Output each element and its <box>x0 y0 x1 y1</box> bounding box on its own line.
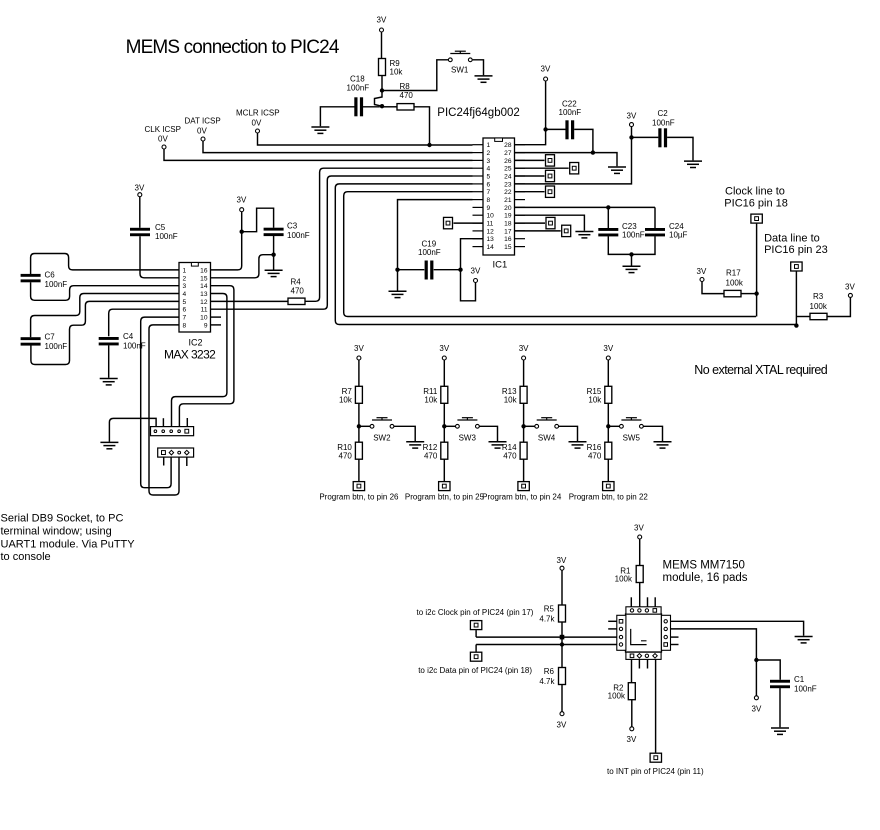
node R9-SW1 <box>380 88 384 92</box>
ground <box>100 379 118 385</box>
svg-text:C18: C18 <box>350 75 365 84</box>
node data/R6 <box>560 642 564 646</box>
svg-text:R14: R14 <box>502 443 517 452</box>
bottom pad row <box>626 652 661 659</box>
ground <box>654 442 672 448</box>
wire <box>241 212 243 232</box>
wire zigzag to C3 top <box>242 208 274 232</box>
svg-text:SW5: SW5 <box>623 434 641 443</box>
svg-text:10k: 10k <box>424 396 438 405</box>
wire <box>362 106 380 108</box>
wire C6 bottom to MAX pin3 <box>31 282 179 300</box>
ground <box>311 127 329 133</box>
wire <box>381 32 383 59</box>
wire pin7 to clock line <box>344 192 756 317</box>
capacitor C24 <box>645 228 665 236</box>
terminal pin25 btn <box>439 482 450 491</box>
svg-text:0V: 0V <box>252 119 262 128</box>
svg-text:R6: R6 <box>544 667 555 676</box>
svg-text:MCLR ICSP: MCLR ICSP <box>236 109 280 118</box>
svg-text:PIC16 pin 18: PIC16 pin 18 <box>724 197 788 209</box>
svg-text:26: 26 <box>504 158 512 165</box>
svg-text:2: 2 <box>183 275 187 282</box>
ground <box>608 167 626 173</box>
wire MAX pin8 to DB9 socket <box>149 325 179 495</box>
resistor R15 <box>605 386 612 403</box>
svg-text:5: 5 <box>487 174 491 181</box>
svg-text:Serial DB9 Socket, to PC: Serial DB9 Socket, to PC <box>1 513 124 525</box>
svg-text:3V: 3V <box>627 111 637 120</box>
svg-text:3V: 3V <box>845 282 855 291</box>
svg-text:Program btn, to pin 25: Program btn, to pin 25 <box>405 492 485 501</box>
node C2 <box>629 135 633 139</box>
svg-text:100nF: 100nF <box>652 118 675 127</box>
svg-text:100k: 100k <box>810 302 828 311</box>
MEMS MM7150 module body <box>626 614 662 652</box>
wire <box>139 197 141 228</box>
resistor R5 <box>559 605 566 622</box>
node C19/pin13 <box>458 268 462 272</box>
svg-text:10µF: 10µF <box>669 231 688 240</box>
capacitor C18 <box>354 97 363 116</box>
terminal pin22 <box>515 191 545 193</box>
svg-text:C5: C5 <box>155 223 166 232</box>
node C1/3V <box>754 658 758 662</box>
wire MAX pin12 to R4 <box>211 300 289 302</box>
svg-text:100nF: 100nF <box>418 248 441 257</box>
wire C4 to ground <box>108 345 110 378</box>
wire MAX pin5 to C7 bottom <box>31 301 179 364</box>
svg-text:20: 20 <box>504 205 512 212</box>
svg-text:CLK ICSP: CLK ICSP <box>145 125 181 134</box>
wire R17 to node <box>741 293 757 295</box>
svg-text:to console: to console <box>1 551 51 563</box>
wire pin15 to C3 node <box>211 255 274 278</box>
ground <box>489 442 507 448</box>
i2c clock line <box>476 636 617 638</box>
terminal pin17 <box>515 230 561 232</box>
terminal i2c data <box>470 652 481 661</box>
svg-text:8: 8 <box>487 197 491 204</box>
wire pin6 to data line <box>335 184 795 325</box>
wire MAX pin14 to DB9 connector <box>179 286 234 427</box>
terminal pin24 btn <box>518 482 529 491</box>
svg-text:No external XTAL required: No external XTAL required <box>694 363 827 377</box>
svg-text:100nF: 100nF <box>45 342 68 351</box>
header stubs <box>162 418 164 426</box>
wire C6 top to MAX pin1 <box>31 254 179 275</box>
capacitor C22 <box>546 128 566 130</box>
svg-text:Clock line to: Clock line to <box>725 186 785 198</box>
svg-text:3V: 3V <box>354 344 364 353</box>
resistor R16 <box>605 442 612 459</box>
switch SW1 <box>448 51 472 62</box>
wire header pin1 to ground <box>109 418 156 441</box>
button circuit SW4 <box>482 344 586 501</box>
node data line <box>794 323 798 327</box>
svg-text:R11: R11 <box>423 387 438 396</box>
pin stubs right 10 9 <box>211 316 222 318</box>
switch SW4 <box>535 418 559 429</box>
wire pin16 to 3V node <box>211 232 242 270</box>
IC IC2 MAX 3232 body <box>179 263 211 333</box>
svg-text:470: 470 <box>291 287 305 296</box>
svg-text:1: 1 <box>487 142 491 149</box>
wire <box>382 106 397 108</box>
terminal data line <box>791 262 802 271</box>
node C18-R8 <box>380 104 384 108</box>
resistor R13 <box>520 386 527 403</box>
svg-text:3: 3 <box>487 158 491 165</box>
ground <box>100 442 118 448</box>
resistor R8 <box>397 104 414 110</box>
capacitor C2 <box>632 136 659 138</box>
wire module to R2 <box>631 659 633 683</box>
svg-text:10k: 10k <box>339 396 353 405</box>
svg-text:terminal window; using: terminal window; using <box>1 526 112 538</box>
svg-text:SW2: SW2 <box>373 434 391 443</box>
svg-text:C1: C1 <box>794 675 805 684</box>
svg-text:3V: 3V <box>237 196 247 205</box>
svg-text:4.7k: 4.7k <box>539 615 555 624</box>
pin numbers <box>183 267 187 329</box>
wire <box>434 269 461 271</box>
svg-text:3V: 3V <box>377 16 387 25</box>
svg-text:28: 28 <box>504 142 512 149</box>
svg-text:PIC24fj64gb002: PIC24fj64gb002 <box>437 107 519 119</box>
svg-text:8: 8 <box>183 322 187 329</box>
svg-text:470: 470 <box>503 452 517 461</box>
svg-text:4.7k: 4.7k <box>539 677 555 686</box>
wire pin23 to 3V <box>515 127 632 184</box>
wire R3 tap <box>796 316 810 318</box>
svg-text:19: 19 <box>504 213 512 220</box>
wire MAX pin4 to C7 top <box>31 294 179 338</box>
wire C19 to pin13 <box>461 239 484 270</box>
right pad column <box>661 615 670 650</box>
svg-text:MAX 3232: MAX 3232 <box>164 348 216 362</box>
svg-text:3V: 3V <box>697 267 707 276</box>
svg-text:10k: 10k <box>504 396 518 405</box>
ground <box>795 637 813 643</box>
resistor R9 <box>379 59 386 76</box>
terminal pin26 btn <box>353 482 364 491</box>
terminal i2c clock <box>470 621 481 630</box>
pin stubs left <box>473 145 484 247</box>
ground <box>475 76 493 82</box>
terminal pin11 <box>444 217 453 228</box>
ground <box>265 270 283 276</box>
terminal pin22 btn <box>603 482 614 491</box>
wire <box>382 60 448 91</box>
svg-text:3V: 3V <box>135 184 145 193</box>
capacitor C3 <box>264 228 284 236</box>
wire pin20 to C23 C24 <box>515 206 656 208</box>
svg-text:R5: R5 <box>544 605 555 614</box>
svg-text:3V: 3V <box>439 344 449 353</box>
button circuit SW3 <box>405 344 507 501</box>
svg-text:3: 3 <box>183 283 187 290</box>
node 3V/C22 <box>543 127 547 131</box>
wire R5 R6 vertical <box>561 622 563 668</box>
capacitor C7 <box>21 337 41 345</box>
top pad row <box>626 607 661 614</box>
wire <box>381 76 383 91</box>
svg-text:module, 16 pads: module, 16 pads <box>663 572 748 584</box>
capacitor C4 <box>99 337 119 345</box>
svg-text:R7: R7 <box>342 387 353 396</box>
svg-text:0V: 0V <box>197 127 207 136</box>
svg-text:4: 4 <box>487 166 491 173</box>
wire C18 left to ground <box>320 107 355 127</box>
svg-text:SW1: SW1 <box>451 66 469 75</box>
node <box>357 424 361 428</box>
svg-text:22: 22 <box>504 189 512 196</box>
svg-text:100k: 100k <box>615 575 633 584</box>
svg-text:3V: 3V <box>557 556 567 565</box>
svg-text:100k: 100k <box>726 279 744 288</box>
svg-text:3V: 3V <box>603 344 613 353</box>
svg-text:C4: C4 <box>123 332 134 341</box>
svg-text:3V: 3V <box>627 735 637 744</box>
wire module pad to ground right <box>671 621 804 636</box>
svg-text:10: 10 <box>200 315 208 322</box>
svg-text:R10: R10 <box>337 443 352 452</box>
svg-text:10: 10 <box>487 213 495 220</box>
svg-text:C3: C3 <box>287 222 298 231</box>
resistor R1 <box>636 566 643 583</box>
svg-text:10k: 10k <box>390 68 404 77</box>
wire module to INT terminal <box>655 659 657 752</box>
capacitor C5 <box>130 228 150 236</box>
capacitor C1 <box>770 680 790 688</box>
svg-text:100nF: 100nF <box>794 685 817 694</box>
svg-text:470: 470 <box>588 452 602 461</box>
svg-text:C7: C7 <box>45 333 56 342</box>
bottom stubs <box>638 659 640 668</box>
wire MAX pin7 to DB9 socket <box>141 317 179 488</box>
svg-text:7: 7 <box>183 315 187 322</box>
switch SW2 <box>370 418 394 429</box>
svg-text:6: 6 <box>487 181 491 188</box>
wire data terminal down <box>795 272 797 326</box>
svg-text:470: 470 <box>424 452 438 461</box>
button circuit SW2 <box>319 344 424 501</box>
svg-text:14: 14 <box>487 244 495 251</box>
ground <box>684 161 702 167</box>
wire clock terminal down to node <box>756 224 758 317</box>
wire pin28 to 3V node <box>515 129 546 144</box>
svg-text:16: 16 <box>200 267 208 274</box>
svg-text:R17: R17 <box>726 269 741 278</box>
terminal pin26 <box>515 159 545 161</box>
button circuit SW5 <box>569 344 672 501</box>
svg-text:MEMS connection to PIC24: MEMS connection to PIC24 <box>126 37 340 58</box>
wire to C1 <box>756 660 780 680</box>
svg-text:25: 25 <box>504 166 512 173</box>
svg-text:10k: 10k <box>588 396 602 405</box>
ground <box>389 291 407 297</box>
resistor R3 <box>810 313 827 319</box>
svg-text:C22: C22 <box>562 100 577 109</box>
capacitor C6 <box>21 274 41 282</box>
wire MAX pin13 to DB9 connector <box>172 294 227 427</box>
svg-text:100nF: 100nF <box>45 280 68 289</box>
i2c data line <box>476 644 617 646</box>
node <box>442 424 446 428</box>
svg-text:DAT ICSP: DAT ICSP <box>185 117 221 126</box>
wire <box>473 60 484 75</box>
svg-text:PIC16 pin 23: PIC16 pin 23 <box>764 244 828 256</box>
node MCLR <box>427 143 431 147</box>
svg-text:23: 23 <box>504 181 512 188</box>
resistor R7 <box>355 386 362 403</box>
ground <box>406 442 424 448</box>
ground <box>575 232 593 238</box>
wire pin19 to ground <box>515 215 585 231</box>
wire C3 bottom <box>273 236 275 255</box>
wire pin5 to MAX pin11 <box>211 176 473 309</box>
resistor R4 <box>288 298 305 304</box>
svg-text:27: 27 <box>504 150 512 157</box>
svg-text:IC2: IC2 <box>189 338 203 348</box>
resistor R6 <box>559 668 566 685</box>
switch SW5 <box>620 418 644 429</box>
svg-text:UART1 module. Via PuTTY: UART1 module. Via PuTTY <box>1 539 136 551</box>
svg-text:3V: 3V <box>519 344 529 353</box>
svg-text:C2: C2 <box>658 109 669 118</box>
svg-text:2: 2 <box>487 150 491 157</box>
wire R8 to MCLR node <box>414 107 430 145</box>
svg-text:100nF: 100nF <box>155 232 178 241</box>
svg-text:100nF: 100nF <box>622 231 645 240</box>
header J1 pins <box>151 427 194 436</box>
svg-text:R4: R4 <box>291 278 302 287</box>
svg-text:100nF: 100nF <box>559 108 582 117</box>
svg-text:14: 14 <box>200 283 208 290</box>
wire pin27 to ground <box>515 153 618 167</box>
svg-text:470: 470 <box>400 91 414 100</box>
node C22/pin27 <box>591 150 595 154</box>
svg-text:3V: 3V <box>634 524 644 533</box>
IC IC1 PIC24fj64gb002 body <box>483 138 515 255</box>
svg-text:Program btn, to pin 24: Program btn, to pin 24 <box>482 492 562 501</box>
svg-text:3V: 3V <box>471 267 481 276</box>
svg-text:3V: 3V <box>541 65 551 74</box>
svg-text:Program btn, to pin 22: Program btn, to pin 22 <box>569 492 649 501</box>
svg-text:100nF: 100nF <box>123 342 146 351</box>
wire pin4 to R4 <box>305 168 473 301</box>
ground <box>623 266 641 272</box>
svg-text:6: 6 <box>183 307 187 314</box>
svg-text:12: 12 <box>487 228 495 235</box>
left pad column <box>617 615 626 650</box>
svg-text:4: 4 <box>183 291 187 298</box>
svg-text:Program btn, to pin 26: Program btn, to pin 26 <box>319 492 399 501</box>
svg-text:9: 9 <box>204 322 208 329</box>
node C3/pin15/ground <box>271 253 275 257</box>
capacitor C23 <box>598 228 618 236</box>
socket stubs <box>163 457 165 465</box>
resistor R10 <box>355 442 362 459</box>
svg-text:16: 16 <box>504 236 512 243</box>
svg-text:Data line to: Data line to <box>764 232 820 244</box>
terminal pin18 <box>515 222 546 224</box>
left stubs <box>608 620 617 622</box>
wire jog R9 node to C18 node <box>375 93 383 107</box>
svg-text:24: 24 <box>504 174 512 181</box>
terminal pin25 <box>515 167 569 169</box>
svg-text:3V: 3V <box>752 705 762 714</box>
svg-text:SW3: SW3 <box>459 434 477 443</box>
wire MAX pin6 to C4 <box>109 309 179 336</box>
pin stubs right <box>515 145 526 247</box>
wire module pad to 3V/C1 <box>671 629 757 696</box>
svg-text:3V: 3V <box>557 721 567 730</box>
svg-text:C6: C6 <box>45 271 56 280</box>
svg-text:0V: 0V <box>158 135 168 144</box>
svg-text:1: 1 <box>183 267 187 274</box>
resistor R2 <box>628 683 635 700</box>
resistor R11 <box>441 386 448 403</box>
svg-text:R8: R8 <box>400 82 411 91</box>
top stubs <box>630 597 632 607</box>
svg-text:470: 470 <box>339 452 353 461</box>
wire <box>702 282 724 294</box>
wire MCLR <box>258 133 473 145</box>
svg-text:15: 15 <box>504 244 512 251</box>
svg-text:MEMS MM7150: MEMS MM7150 <box>663 559 745 571</box>
svg-text:9: 9 <box>487 205 491 212</box>
svg-text:11: 11 <box>487 221 494 228</box>
wire pin8 down to C19 <box>398 200 473 268</box>
svg-text:11: 11 <box>201 307 208 314</box>
svg-text:to INT pin of PIC24 (pin 11): to INT pin of PIC24 (pin 11) <box>607 767 704 776</box>
svg-text:IC1: IC1 <box>493 260 508 271</box>
svg-text:to i2c Data pin of PIC24 (pin: to i2c Data pin of PIC24 (pin 18) <box>418 666 532 675</box>
wire <box>398 269 425 271</box>
wire C5 to MAX pin2 <box>140 236 179 278</box>
ground <box>771 728 789 734</box>
resistor R12 <box>441 442 448 459</box>
svg-text:R12: R12 <box>423 443 438 452</box>
terminal pin24 <box>515 175 545 177</box>
resistor R14 <box>520 442 527 459</box>
svg-text:18: 18 <box>504 221 512 228</box>
svg-text:7: 7 <box>487 189 491 196</box>
right stubs <box>671 636 679 638</box>
switch SW3 <box>456 418 480 429</box>
node R17/clock <box>754 291 758 295</box>
header J2 socket <box>158 448 194 457</box>
svg-text:13: 13 <box>487 236 495 243</box>
wire DAT <box>203 141 473 153</box>
wire R3 to 3V <box>827 298 850 317</box>
node <box>606 424 610 428</box>
svg-text:13: 13 <box>200 291 208 298</box>
svg-text:R15: R15 <box>587 387 602 396</box>
svg-text:5: 5 <box>183 299 187 306</box>
svg-text:100k: 100k <box>608 692 626 701</box>
node <box>521 424 525 428</box>
node clock/R5 <box>560 635 565 640</box>
capacitor C19 <box>425 261 434 280</box>
ground <box>569 442 587 448</box>
svg-text:21: 21 <box>504 197 512 204</box>
node 3V/C3/pin16 <box>240 230 244 234</box>
svg-text:R3: R3 <box>813 292 824 301</box>
svg-text:17: 17 <box>504 228 512 235</box>
